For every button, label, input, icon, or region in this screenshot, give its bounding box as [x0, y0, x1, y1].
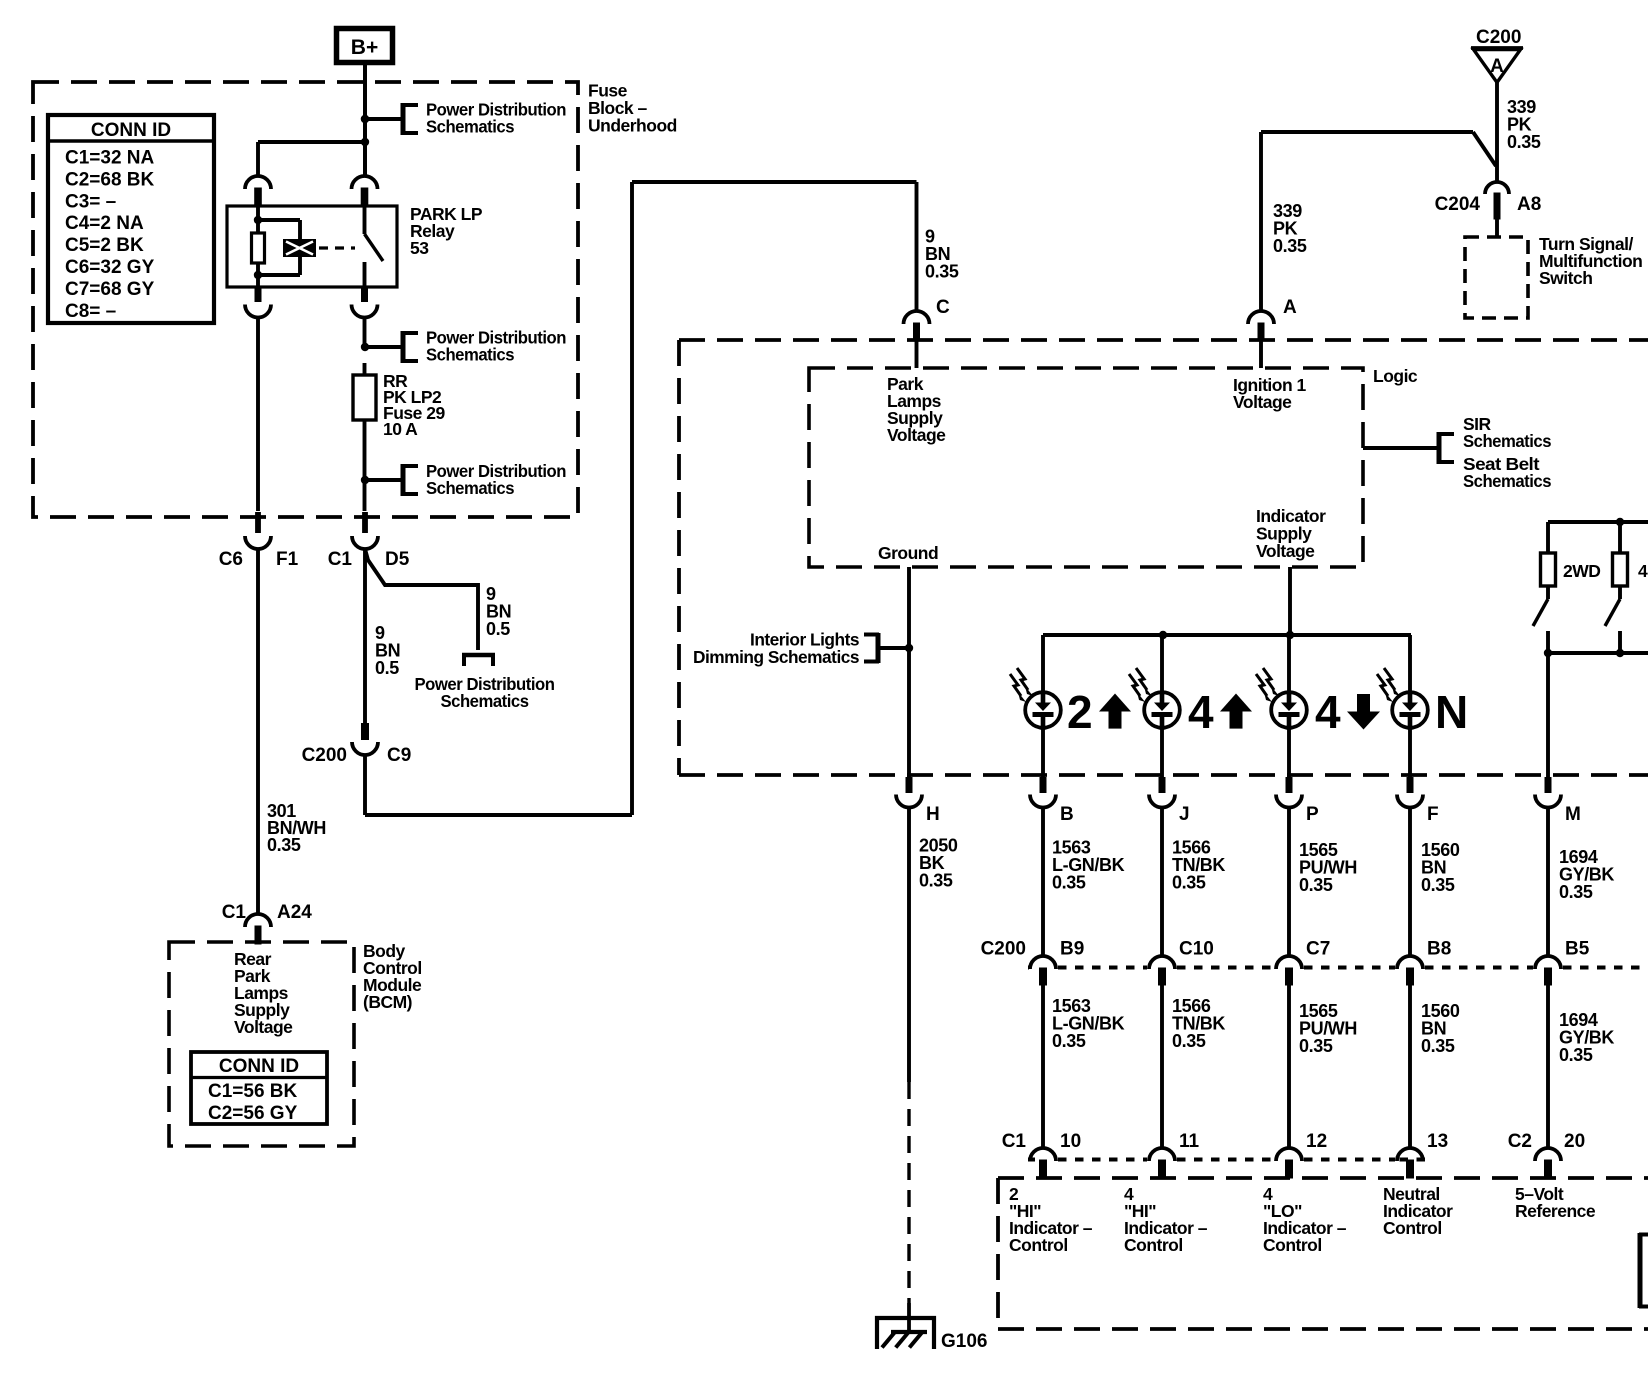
svg-text:11: 11: [1179, 1131, 1200, 1152]
svg-text:0.35: 0.35: [1507, 132, 1541, 152]
svg-text:(BCM): (BCM): [363, 992, 412, 1012]
svg-text:Schematics: Schematics: [426, 345, 515, 365]
svg-text:C5=2 BK: C5=2 BK: [65, 235, 144, 256]
svg-text:Control: Control: [1263, 1235, 1322, 1255]
svg-text:C1: C1: [328, 549, 353, 570]
svg-text:0.35: 0.35: [1421, 875, 1455, 895]
svg-text:A: A: [1490, 56, 1504, 77]
svg-text:P: P: [1306, 804, 1319, 825]
svg-text:0.35: 0.35: [1421, 1036, 1455, 1056]
svg-text:C1=32 NA: C1=32 NA: [65, 148, 155, 169]
svg-text:Schematics: Schematics: [1463, 431, 1552, 451]
svg-text:B9: B9: [1060, 939, 1084, 960]
svg-text:0.35: 0.35: [1559, 882, 1593, 902]
svg-text:Voltage: Voltage: [1256, 541, 1315, 561]
svg-text:C2=68 BK: C2=68 BK: [65, 169, 155, 190]
svg-text:C7: C7: [1306, 939, 1330, 960]
svg-text:12: 12: [1306, 1131, 1327, 1152]
svg-text:C10: C10: [1179, 939, 1214, 960]
svg-text:Voltage: Voltage: [234, 1017, 293, 1037]
svg-text:0.35: 0.35: [1172, 873, 1206, 893]
svg-text:F1: F1: [276, 549, 299, 570]
svg-text:0.5: 0.5: [375, 658, 399, 678]
svg-text:0.35: 0.35: [1299, 1036, 1333, 1056]
svg-text:C3= –: C3= –: [65, 191, 116, 212]
svg-text:0.35: 0.35: [1559, 1045, 1593, 1065]
svg-text:C6=32 GY: C6=32 GY: [65, 257, 155, 278]
svg-text:Control: Control: [1383, 1218, 1442, 1238]
svg-text:Switch: Switch: [1539, 268, 1592, 288]
svg-text:Underhood: Underhood: [588, 116, 677, 136]
svg-text:Voltage: Voltage: [887, 425, 946, 445]
svg-text:Voltage: Voltage: [1233, 392, 1292, 412]
svg-text:53: 53: [410, 238, 429, 258]
svg-text:0.35: 0.35: [267, 835, 301, 855]
svg-text:2WD: 2WD: [1563, 561, 1600, 581]
svg-text:20: 20: [1564, 1131, 1585, 1152]
svg-text:Schematics: Schematics: [426, 117, 515, 137]
svg-text:N: N: [1435, 686, 1468, 738]
svg-text:10 A: 10 A: [383, 419, 418, 439]
svg-text:0.35: 0.35: [1273, 236, 1307, 256]
svg-text:C2: C2: [1508, 1131, 1532, 1152]
svg-text:C1=56 BK: C1=56 BK: [208, 1081, 298, 1102]
svg-text:0.5: 0.5: [486, 619, 510, 639]
svg-text:B: B: [1060, 804, 1074, 825]
svg-text:A8: A8: [1517, 194, 1541, 215]
svg-text:0.35: 0.35: [919, 871, 953, 891]
svg-text:4: 4: [1638, 561, 1648, 581]
svg-text:Logic: Logic: [1373, 366, 1418, 386]
svg-text:CONN ID: CONN ID: [219, 1056, 299, 1077]
svg-text:2: 2: [1067, 686, 1093, 738]
svg-text:Dimming Schematics: Dimming Schematics: [693, 647, 860, 667]
svg-text:Reference: Reference: [1515, 1201, 1596, 1221]
svg-text:C7=68 GY: C7=68 GY: [65, 279, 155, 300]
svg-text:10: 10: [1060, 1131, 1081, 1152]
svg-text:Schematics: Schematics: [426, 478, 515, 498]
svg-text:C200: C200: [981, 939, 1026, 960]
svg-text:0.35: 0.35: [1052, 1031, 1086, 1051]
svg-text:0.35: 0.35: [1299, 875, 1333, 895]
svg-text:C2=56 GY: C2=56 GY: [208, 1103, 298, 1124]
svg-text:C200: C200: [302, 745, 347, 766]
svg-text:C8= –: C8= –: [65, 301, 116, 322]
svg-text:C200: C200: [1476, 27, 1521, 48]
svg-text:0.35: 0.35: [1172, 1031, 1206, 1051]
svg-text:D5: D5: [385, 549, 410, 570]
svg-text:Schematics: Schematics: [1463, 471, 1552, 491]
svg-text:A: A: [1283, 297, 1297, 318]
svg-text:0.35: 0.35: [925, 262, 959, 282]
svg-text:F: F: [1427, 804, 1439, 825]
svg-text:4: 4: [1188, 686, 1214, 738]
svg-text:Control: Control: [1124, 1235, 1183, 1255]
svg-text:C4=2 NA: C4=2 NA: [65, 213, 144, 234]
svg-text:A24: A24: [277, 902, 312, 923]
svg-text:B8: B8: [1427, 939, 1451, 960]
svg-text:13: 13: [1427, 1131, 1448, 1152]
svg-text:C204: C204: [1435, 194, 1481, 215]
svg-text:H: H: [926, 804, 940, 825]
svg-text:Schematics: Schematics: [441, 691, 530, 711]
svg-text:B+: B+: [351, 36, 378, 59]
svg-text:C: C: [936, 297, 950, 318]
svg-text:4: 4: [1315, 686, 1341, 738]
svg-text:J: J: [1179, 804, 1190, 825]
svg-text:G106: G106: [941, 1331, 987, 1352]
svg-text:C9: C9: [387, 745, 411, 766]
svg-text:Control: Control: [1009, 1235, 1068, 1255]
svg-text:0.35: 0.35: [1052, 873, 1086, 893]
svg-text:C1: C1: [1002, 1131, 1027, 1152]
svg-text:Ground: Ground: [878, 543, 938, 563]
svg-text:CONN ID: CONN ID: [91, 120, 171, 141]
svg-text:C1: C1: [222, 902, 247, 923]
svg-text:B5: B5: [1565, 939, 1590, 960]
svg-text:M: M: [1565, 804, 1581, 825]
svg-text:C6: C6: [219, 549, 243, 570]
